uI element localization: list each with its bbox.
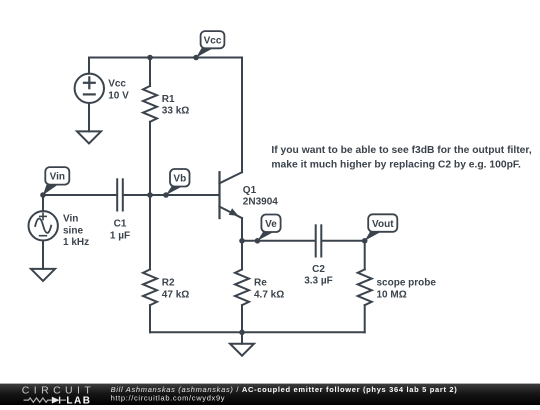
junction dot (bottom rail / ground) [239,330,245,336]
svg-text:make it much higher by replaci: make it much higher by replacing C2 by e… [271,159,521,170]
wire Re top lead [241,241,243,270]
footer bar [0,384,540,405]
svg-text:10 V: 10 V [108,90,129,101]
svg-text:Vcc: Vcc [204,36,222,47]
resistor scope probe 10 MOhm [358,269,437,305]
svg-text:10 MΩ: 10 MΩ [377,289,407,300]
wire Ve to C2 [242,240,315,242]
net flag Vin [40,167,69,198]
resistor R2 47 kOhm [143,269,189,305]
capacitor C1 1 uF [110,179,130,241]
junction dot (C1 / R1-R2 rail) [147,192,153,198]
svg-text:R2: R2 [162,278,175,289]
capacitor C2 3.3 uF [304,225,333,286]
net flag Ve [255,215,281,244]
svg-text:R1: R1 [162,94,175,105]
svg-text:Vout: Vout [372,219,394,230]
wire emitter down [241,218,243,241]
ground (below V2) [31,269,55,281]
svg-text:33 kΩ: 33 kΩ [162,106,189,117]
svg-text:47 kΩ: 47 kΩ [162,289,189,300]
svg-text:Vb: Vb [173,174,186,185]
wire R1 bottom to Vb node [149,122,151,195]
wire C2 to Vout [322,240,364,242]
voltage source V2 (Vin sine 1 kHz) [29,195,90,269]
wire mid left (Vin to C1) [43,194,116,196]
junction dot (emitter / Re / Ve wire) [239,238,245,244]
svg-text:scope probe: scope probe [377,278,437,289]
svg-text:LAB: LAB [66,395,91,405]
svg-text:Re: Re [254,278,267,289]
svg-text:C2: C2 [312,264,325,275]
wire Re bottom lead [241,305,243,332]
svg-text:http://circuitlab.com/cwydx9y: http://circuitlab.com/cwydx9y [111,394,226,403]
svg-text:Q1: Q1 [243,185,257,196]
ground (main) [230,344,254,356]
net flag Vb [163,169,189,198]
svg-text:Ve: Ve [265,219,277,230]
annotation note about f3dB [271,145,531,170]
voltage source V1 (Vcc 10 V) [75,58,130,132]
svg-text:C1: C1 [114,219,127,230]
wire top rail (Vcc net) [89,57,242,59]
wire scope probe bottom lead [364,305,366,332]
ground (below V1) [77,131,101,143]
svg-text:2N3904: 2N3904 [243,197,278,208]
resistor R1 33 kOhm [143,86,189,122]
wire bottom rail [150,331,365,333]
svg-text:Vcc: Vcc [108,79,126,90]
CircuitLab logo [22,385,95,407]
resistor Re 4.7 kOhm [235,269,284,305]
svg-text:1 µF: 1 µF [110,230,130,241]
svg-text:4.7 kΩ: 4.7 kΩ [254,289,284,300]
svg-text:3.3 µF: 3.3 µF [304,276,333,287]
svg-text:1 kHz: 1 kHz [63,237,89,248]
wire ground stub [241,332,243,343]
wire mid right (C1 to base) [124,194,220,196]
svg-text:sine: sine [63,225,83,236]
wire R1 top lead [149,58,151,87]
wire R2 top lead [149,195,151,269]
net flag Vout [362,214,397,243]
svg-text:If you want to be able to see: If you want to be able to see f3dB for t… [271,145,531,156]
svg-text:Vin: Vin [63,214,78,225]
transistor Q1 2N3904 (NPN) [220,172,279,218]
wire R2 bottom lead [149,305,151,332]
wire collector rail [241,58,243,173]
wire scope probe top lead [364,241,366,270]
svg-text:Vin: Vin [50,172,65,183]
net flag Vcc [193,31,224,60]
junction dot (R1 / top rail) [147,55,153,61]
